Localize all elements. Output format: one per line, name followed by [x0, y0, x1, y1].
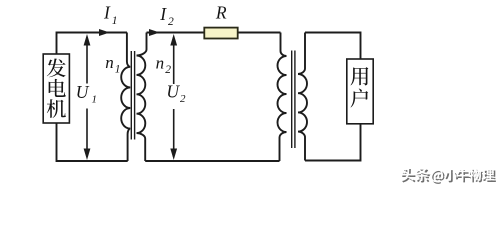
watermark 头条@小牛物理 (embossed): [401, 167, 496, 184]
svg-text:U: U: [76, 82, 90, 102]
generator box 发电机: [43, 54, 69, 123]
svg-text:n: n: [105, 53, 114, 72]
voltage arrow U1 (double-headed): [86, 37, 88, 157]
transformer T1 core: [130, 51, 132, 140]
wire: generator bottom lead and primary loop bottom: [57, 123, 128, 161]
svg-text:2: 2: [165, 64, 171, 76]
label U2 (white backing on the arrow line): [165, 84, 184, 109]
wire: consumer loop top: [305, 33, 361, 60]
consumer label 用: [351, 67, 369, 85]
svg-text:I: I: [159, 4, 167, 24]
consumer label 户: [351, 88, 369, 107]
svg-text:1: 1: [92, 93, 98, 105]
current arrow I1: [99, 29, 110, 36]
svg-text:1: 1: [112, 15, 118, 27]
generator label 电: [49, 79, 66, 97]
svg-text:2: 2: [168, 16, 174, 28]
svg-text:I: I: [103, 3, 111, 23]
wire: secondary loop bottom: [145, 160, 279, 162]
transformer T2 primary winding: [278, 33, 287, 162]
svg-text:R: R: [215, 3, 227, 23]
svg-text:1: 1: [115, 63, 121, 75]
transformer T1 primary winding n1: [121, 33, 130, 162]
voltage arrow U2 (double-headed): [173, 37, 175, 157]
transformer T2 core: [291, 51, 293, 149]
generator label 发: [47, 58, 66, 77]
generator label 机: [47, 99, 66, 118]
svg-text:n: n: [156, 54, 165, 73]
current arrow I2: [149, 29, 160, 36]
wire: primary loop top (generator to transformer T1): [57, 33, 128, 55]
svg-text:2: 2: [180, 93, 186, 105]
wire: consumer loop bottom: [305, 124, 361, 161]
consumer box 用户: [347, 59, 373, 124]
resistor R: [204, 28, 237, 39]
wire: secondary loop top with resistor R: [147, 32, 205, 34]
transformer T2 secondary winding: [298, 33, 307, 161]
transformer T1 secondary winding n2: [137, 33, 147, 162]
svg-text:U: U: [166, 82, 180, 102]
label U1 (white backing on the arrow line): [78, 84, 96, 109]
